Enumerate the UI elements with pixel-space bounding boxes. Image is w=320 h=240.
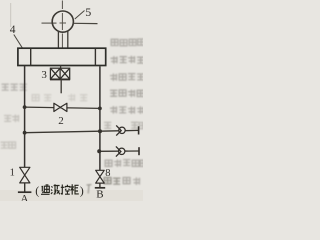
junction dot lower coupling line	[97, 149, 101, 153]
paper background	[0, 0, 143, 201]
pump centerline center dash	[60, 22, 67, 24]
left main pipe	[24, 66, 26, 168]
bleed row y73	[110, 73, 144, 81]
solenoid valve 3 crossed box	[50, 68, 70, 79]
pipe valve-2 horizontal	[25, 107, 100, 108]
junction dot left lower line	[23, 131, 27, 135]
svg-text:): )	[80, 184, 84, 198]
bleed row y38	[111, 39, 144, 46]
svg-text:(: (	[35, 184, 39, 198]
valve 8 stem	[99, 183, 101, 187]
caption glyph kong	[61, 185, 70, 195]
hose coupling lower chevron	[116, 146, 121, 156]
cabinet internal divider left	[30, 49, 32, 66]
bleed row middle y94	[32, 94, 87, 102]
right main pipe	[99, 66, 101, 170]
end bar upper	[138, 126, 140, 134]
pump support leg left	[57, 31, 59, 49]
stub rectangle to valve 3	[60, 66, 62, 69]
junction dot right lower line	[98, 129, 102, 133]
main diagram	[10, 1, 139, 206]
pipe lower horizontal	[25, 130, 139, 132]
hose coupling upper circle	[119, 127, 125, 133]
pump outlet pipe right	[73, 22, 97, 24]
bleed row left y83	[2, 84, 27, 91]
junction dot left valve-2 line	[23, 105, 27, 109]
svg-text:4: 4	[10, 24, 16, 36]
stub below valve 3	[60, 80, 62, 94]
hose coupling upper chevron	[116, 125, 121, 135]
caption glyph gui	[70, 184, 78, 194]
pump support leg right	[67, 31, 69, 49]
caption glyph ye	[51, 184, 60, 194]
valve 1 stem	[24, 183, 26, 192]
pump centerline vertical	[61, 1, 63, 48]
valve 2 bowtie	[54, 103, 67, 111]
leader line from label 4	[14, 35, 23, 49]
svg-text:2: 2	[58, 115, 64, 127]
svg-text:1: 1	[10, 167, 15, 178]
bleed row y177 darker	[104, 177, 140, 185]
bleed row y159	[105, 159, 147, 167]
bleed row y56	[111, 56, 145, 64]
paper mottling vignette	[0, 190, 143, 201]
end bar lower	[138, 147, 140, 155]
valve 8 end bar B	[95, 187, 105, 189]
junction dot right valve-2 line	[98, 107, 102, 111]
cabinet internal divider right	[94, 49, 96, 66]
cabinet tank rectangle 4	[18, 48, 106, 65]
bleed row y121	[104, 122, 146, 129]
bleed row y89	[110, 90, 144, 98]
svg-text:A: A	[21, 193, 29, 201]
leader line to label 5	[75, 11, 85, 20]
svg-text:8: 8	[105, 168, 110, 179]
caption glyph tong	[41, 185, 50, 194]
bleed row y106	[110, 106, 144, 114]
valve 8 bowtie vertical	[96, 170, 105, 183]
valve 1 end bar A	[18, 191, 32, 193]
bleed-through text rows (reverse page, light gray)	[1, 39, 148, 185]
bleed row left y114	[4, 115, 19, 123]
bleed row left y141	[1, 142, 16, 149]
svg-text:3: 3	[41, 69, 47, 81]
pump circle 5	[52, 11, 73, 32]
svg-text:B: B	[96, 189, 103, 201]
faint page border segment top-left	[10, 3, 12, 27]
pump centerline horizontal left tick	[42, 22, 57, 24]
valve 1 bowtie vertical	[20, 167, 30, 183]
svg-text:5: 5	[85, 5, 91, 19]
bleed mark figure-number 7 shape right of caption	[87, 185, 92, 194]
pipe to lower coupling	[99, 150, 139, 152]
caption (通液控柜)	[35, 184, 84, 198]
hose coupling lower circle	[119, 148, 125, 154]
